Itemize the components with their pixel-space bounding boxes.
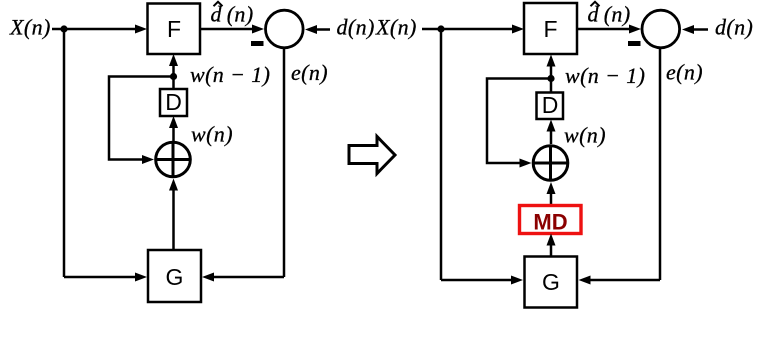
svg-text:e(n): e(n): [291, 60, 328, 85]
svg-text:w(n − 1): w(n − 1): [565, 63, 645, 88]
svg-text:X(n): X(n): [9, 15, 51, 40]
svg-text:w(n − 1): w(n − 1): [190, 62, 270, 87]
svg-text:d (n): d (n): [588, 2, 631, 27]
svg-text:MD: MD: [533, 210, 567, 235]
svg-text:d (n): d (n): [211, 2, 254, 27]
svg-text:X(n): X(n): [375, 15, 417, 40]
svg-text:D: D: [165, 89, 182, 115]
svg-text:e(n): e(n): [666, 60, 703, 85]
svg-text:G: G: [542, 269, 560, 295]
svg-text:w(n): w(n): [564, 123, 606, 148]
svg-text:d(n): d(n): [337, 15, 375, 40]
svg-text:D: D: [542, 92, 559, 118]
svg-text:G: G: [166, 264, 184, 290]
svg-text:F: F: [543, 16, 557, 42]
svg-text:d(n): d(n): [715, 15, 753, 40]
svg-text:F: F: [167, 16, 181, 42]
svg-text:w(n): w(n): [191, 122, 233, 147]
